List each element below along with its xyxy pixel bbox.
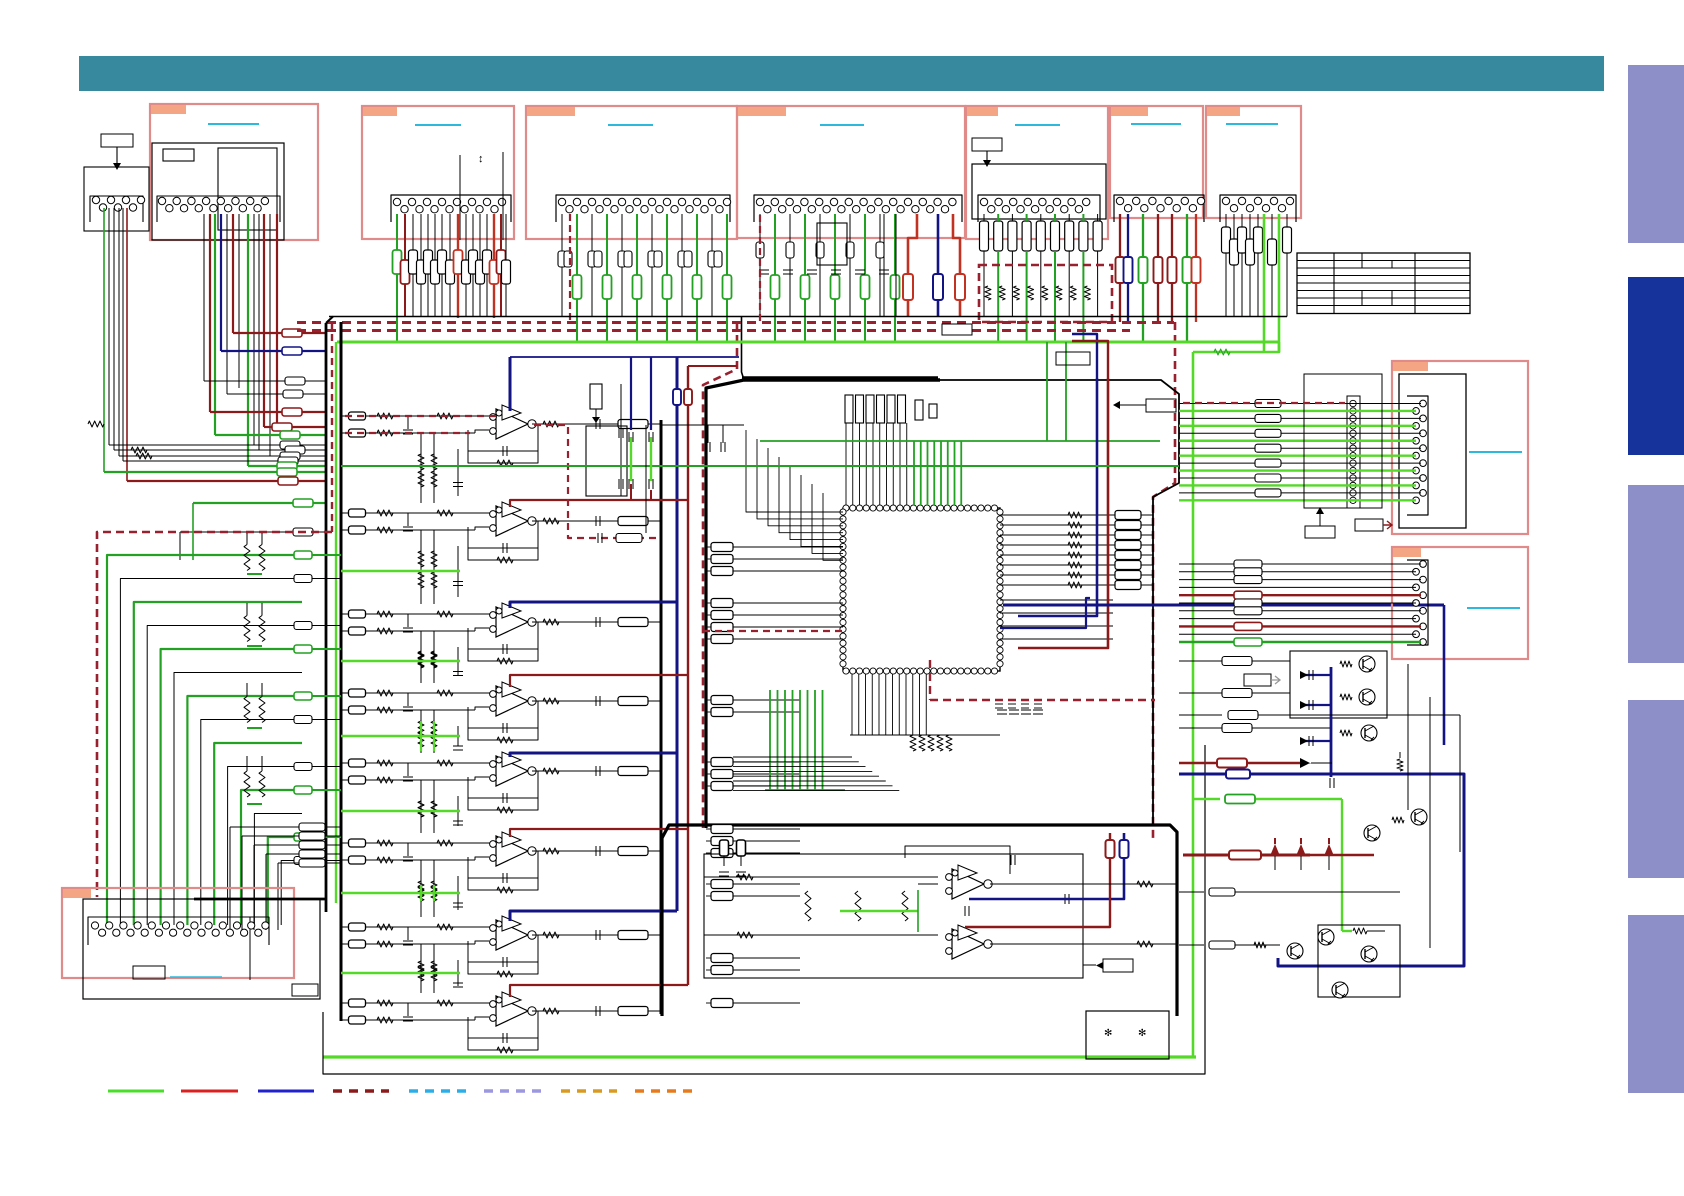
IC U10 pins top — [843, 505, 849, 511]
channel 8 feedback — [468, 1011, 538, 1038]
wire arrow to relay box — [116, 147, 118, 163]
right pin networks — [1000, 514, 1153, 516]
analog channel 4 input beads — [349, 689, 366, 697]
channel 7 feedback — [468, 935, 538, 962]
channel 3 output network — [532, 621, 661, 623]
dashed bus drop at logic block — [703, 322, 737, 828]
dashed enclosure left block — [97, 532, 332, 897]
sidebar tab 4 — [1628, 700, 1684, 878]
CN101 label rect — [163, 149, 194, 161]
transistor Q5 — [1318, 929, 1334, 945]
wire bundle from CN106 — [1119, 214, 1121, 322]
analog channel 1 input beads — [349, 412, 366, 420]
CN105 dashed matrix box — [979, 265, 1112, 322]
bottom pin fan — [851, 674, 853, 735]
logic block top bus — [742, 376, 938, 379]
connector J1 pins — [90, 196, 143, 222]
block label box — [101, 134, 133, 147]
regulator rect small — [590, 384, 602, 409]
analog channel 7 input beads — [349, 923, 366, 931]
legend cyan dashed — [409, 1089, 466, 1092]
CN105 wide box — [972, 164, 1106, 219]
power dashed bus row2 — [297, 329, 1130, 332]
CN101 pin row — [157, 196, 280, 222]
op-amp U4 — [496, 686, 528, 716]
lower driver box — [1318, 925, 1400, 997]
wire bundle from CN102 — [396, 214, 398, 342]
channel 2 feedback — [468, 521, 538, 548]
legend dark red dashed — [333, 1089, 389, 1092]
IC U10 pins bottom — [843, 668, 849, 674]
analog channel 6 input beads — [349, 839, 366, 847]
dashed inner stub — [703, 630, 843, 632]
main signal bus — [329, 316, 1287, 318]
logic aux rect top — [1056, 352, 1090, 365]
CN108 aux rect — [292, 984, 318, 996]
audio op-amp B — [952, 929, 984, 959]
channel 6 output network — [532, 850, 661, 852]
legend green wire — [108, 1090, 164, 1093]
diode array — [1270, 844, 1280, 856]
analog mid green bus — [341, 465, 1179, 467]
op-amp U1 — [496, 409, 528, 439]
navy long link to driver area — [1003, 604, 1444, 607]
CN105 label rect — [972, 138, 1002, 151]
transistor Q2 — [1359, 689, 1375, 705]
legend red wire — [181, 1090, 238, 1093]
dashed analog loop channel 1 — [345, 415, 496, 417]
CN201 gnd arrow — [1319, 514, 1321, 526]
dashed feed CN104 — [759, 215, 761, 322]
logic aux rect right — [1146, 399, 1176, 412]
header bar — [79, 56, 1604, 91]
transistor Q1 — [1359, 656, 1375, 672]
top pin feed wires — [845, 423, 847, 505]
staircase harness wires — [107, 555, 302, 925]
channel 1 output network — [532, 423, 661, 425]
aux wire frame 2 — [1179, 944, 1204, 946]
wire bundle from CN105 — [980, 221, 989, 251]
green top rail — [760, 440, 1160, 442]
red riser nub — [1072, 341, 1108, 378]
navy power loop — [1179, 774, 1464, 966]
right red feed — [1018, 378, 1108, 648]
bus stub rect — [942, 324, 972, 335]
CN202 pin bracket — [1407, 560, 1428, 645]
analog channel 3 input beads — [349, 610, 366, 618]
series resistors on sensor lines — [131, 447, 147, 453]
channel 4 output network — [532, 700, 661, 702]
driver sub-board outline — [704, 854, 1083, 978]
CN102 pin row — [391, 195, 511, 222]
sidebar tab 2 — [1628, 277, 1684, 455]
channel 5 output network — [532, 770, 661, 772]
legend gold dashed — [561, 1089, 617, 1092]
channel 3 input network — [366, 613, 492, 615]
left pin staircase — [746, 430, 843, 512]
driver box Q-top — [1290, 651, 1387, 718]
green bottom bus — [323, 1055, 1196, 1058]
cap gnd mid — [1397, 759, 1403, 771]
paired bias resistors — [244, 545, 250, 571]
analog channel 5 input beads — [349, 759, 366, 767]
svg-text:↕: ↕ — [478, 153, 484, 165]
green bus right riser — [1192, 352, 1195, 1057]
channel 7 output network — [532, 934, 661, 936]
CN104 inner box — [817, 223, 847, 265]
navy feed elbows — [510, 356, 739, 358]
IC U10 body — [843, 508, 1000, 671]
spare pad marks — [995, 703, 1003, 705]
bead cluster above connector — [299, 823, 325, 831]
navy feed rail for odd channels — [676, 357, 679, 911]
analog channel 8 input beads — [349, 999, 366, 1007]
green supply bead — [1193, 798, 1220, 800]
channel 4 input network — [366, 692, 492, 694]
navy gate rail — [1330, 667, 1333, 777]
dashed rail to CN201 — [1183, 402, 1345, 404]
transistor Q6 — [1361, 946, 1377, 962]
feed beads top — [1222, 657, 1252, 666]
transistor Q7 — [1332, 982, 1348, 998]
IC U10 pins left — [840, 509, 846, 515]
power dashed bus row1 — [297, 321, 1174, 324]
wire bundle from CN101 — [203, 214, 205, 381]
sidebar tab 3 — [1628, 485, 1684, 663]
connector box CN107 frame — [1206, 106, 1301, 218]
output rc to right rail — [990, 883, 1177, 885]
channel 1 input network — [366, 415, 492, 417]
CN201 pin bracket — [1407, 396, 1428, 515]
CN101 sub box — [218, 148, 277, 230]
audio op-amp A — [952, 869, 984, 899]
op-amp networks — [704, 876, 938, 878]
legend blue wire — [258, 1090, 314, 1093]
transistor Q3 — [1361, 725, 1377, 741]
sidebar tab 1 — [1628, 65, 1684, 243]
CN107 pin row — [1220, 195, 1296, 222]
dashed feed CN103 — [569, 214, 571, 322]
wire arrow CN105 — [986, 151, 988, 160]
op-amp U5 — [496, 756, 528, 786]
harness shell box — [1304, 374, 1382, 508]
left vertical rail bundle — [325, 323, 328, 912]
CN201 harness — [1179, 403, 1421, 405]
CN201 pointer rect — [1355, 519, 1383, 531]
channel strip right rail — [660, 420, 663, 1014]
red return line — [965, 833, 1110, 927]
connector box CN103 frame — [526, 106, 737, 239]
CN101 inner box — [152, 143, 284, 240]
connector box CN201 frame — [1392, 361, 1528, 534]
solenoid driver transistors — [1411, 809, 1427, 825]
signal table — [1297, 253, 1470, 314]
green bottom pins — [769, 690, 771, 790]
op-amp U3 — [496, 607, 528, 637]
bead column mid-left — [294, 551, 312, 559]
CN201 pin circles — [1420, 400, 1427, 407]
channel 8 output network — [532, 1010, 661, 1012]
op-amp U7 — [496, 920, 528, 950]
CN202 harness — [1179, 563, 1421, 565]
channel 2 output network — [532, 520, 661, 522]
CN104 colored feeds — [908, 214, 917, 316]
channel 5 input network — [366, 762, 492, 764]
CN104 pin row — [754, 195, 962, 222]
memory array resistor packs — [845, 395, 853, 423]
CN108 pin rows — [88, 917, 269, 945]
op-amp U2 — [496, 506, 528, 536]
bottom caps — [997, 709, 1007, 711]
channel 7 input network — [366, 926, 492, 928]
bottom frame line — [323, 745, 1205, 1074]
green chain overlays — [420, 571, 422, 572]
channel 6 feedback — [468, 851, 538, 878]
CN201 inner shell — [1399, 374, 1466, 528]
elbow wires to ferrite beads row — [233, 332, 283, 334]
regulator side caps — [620, 384, 622, 496]
CN106 pin row — [1114, 195, 1204, 222]
connector box CN106 frame — [1110, 106, 1203, 218]
op-amp U6 — [496, 836, 528, 866]
CN108 label rect — [133, 966, 165, 979]
power dark red feed — [1183, 854, 1310, 857]
channel 2 input network — [366, 512, 492, 514]
regulator rect big — [586, 426, 627, 496]
CN108 body — [83, 899, 320, 999]
svg-text:✻: ✻ — [1104, 1028, 1112, 1039]
bottom resistor bank — [910, 735, 916, 751]
navy riser nub — [1072, 334, 1097, 378]
analog green bus — [337, 341, 1278, 344]
channel 5 feedback — [468, 771, 538, 798]
dashed analog loop channel 2 input — [345, 432, 470, 434]
ferrite array — [1347, 396, 1360, 508]
staircase feeder wires — [192, 503, 194, 560]
dashed bottom rail — [930, 699, 1155, 701]
channel 3 feedback — [468, 622, 538, 649]
sidebar tab 5 — [1628, 915, 1684, 1093]
CN105 pin row — [978, 195, 1100, 222]
legend purple dashed — [484, 1089, 541, 1092]
logic block outline — [744, 378, 940, 382]
blue return line — [969, 833, 1124, 899]
right frame lines — [1179, 714, 1222, 716]
channel green links — [341, 570, 460, 573]
right blue feed — [1018, 378, 1097, 616]
op-amp U8 — [496, 996, 528, 1026]
mid green link — [840, 910, 918, 912]
spark killer box — [1086, 1011, 1169, 1059]
driver aux rect — [1103, 959, 1133, 972]
green risers from bus — [1046, 342, 1048, 441]
CN103 pin row — [556, 195, 730, 222]
collector verticals — [1407, 664, 1409, 810]
channel 1 feedback — [468, 424, 538, 451]
red feed rail for even channels — [687, 366, 689, 985]
CN107 green feeds — [1263, 214, 1266, 352]
legend orange dashed — [635, 1089, 692, 1092]
CN108 cyan label line — [170, 976, 222, 978]
power block outline bottom — [662, 825, 1177, 1016]
connector box CN101 frame — [150, 104, 318, 240]
svg-text:✻: ✻ — [1138, 1028, 1146, 1039]
red diode feed — [1179, 762, 1218, 765]
channel1 corridor vertical — [645, 425, 647, 533]
CN202 pin circles — [1420, 561, 1427, 568]
connector box CN108 frame — [62, 888, 294, 978]
connector box CN202 frame — [1392, 547, 1528, 659]
CN102 adjust mark — [459, 155, 461, 240]
analog channel 2 input beads — [349, 509, 366, 517]
IC U10 pins right — [997, 509, 1003, 515]
aux wire frame — [1179, 891, 1204, 893]
connector box CN102 frame — [362, 106, 514, 239]
relay box — [84, 167, 149, 231]
channel 6 input network — [366, 842, 492, 844]
wire bundle from CN107 — [1225, 214, 1227, 317]
line filter beads — [720, 840, 729, 856]
channel 8 input network — [366, 1002, 492, 1004]
wire bundle from CN104 — [759, 214, 761, 317]
channel strip left rail — [340, 322, 343, 1021]
pointer rect gray — [1244, 674, 1271, 686]
wire bundle from J1 — [103, 208, 105, 472]
connector box CN105 frame — [966, 106, 1108, 239]
bus drop to logic block — [742, 317, 745, 381]
CN104 cap row — [759, 269, 769, 271]
channel bias chains — [420, 433, 422, 503]
wire bundle from CN103 — [561, 214, 563, 317]
corridor blue green stubs — [630, 437, 632, 481]
left bead banks — [711, 543, 733, 552]
green bus jog right — [1193, 342, 1279, 352]
dashed bus right drop — [1153, 322, 1175, 838]
op-amp A feedback cap — [905, 846, 1010, 874]
red stubs corridor — [630, 484, 632, 500]
connector box CN104 frame — [737, 106, 965, 238]
channel 1 output extension — [661, 424, 744, 426]
transistor Q4 — [1287, 943, 1303, 959]
channel 4 feedback — [468, 701, 538, 728]
bottom pin elbow staircase — [733, 756, 852, 758]
red feed elbow — [688, 365, 737, 367]
